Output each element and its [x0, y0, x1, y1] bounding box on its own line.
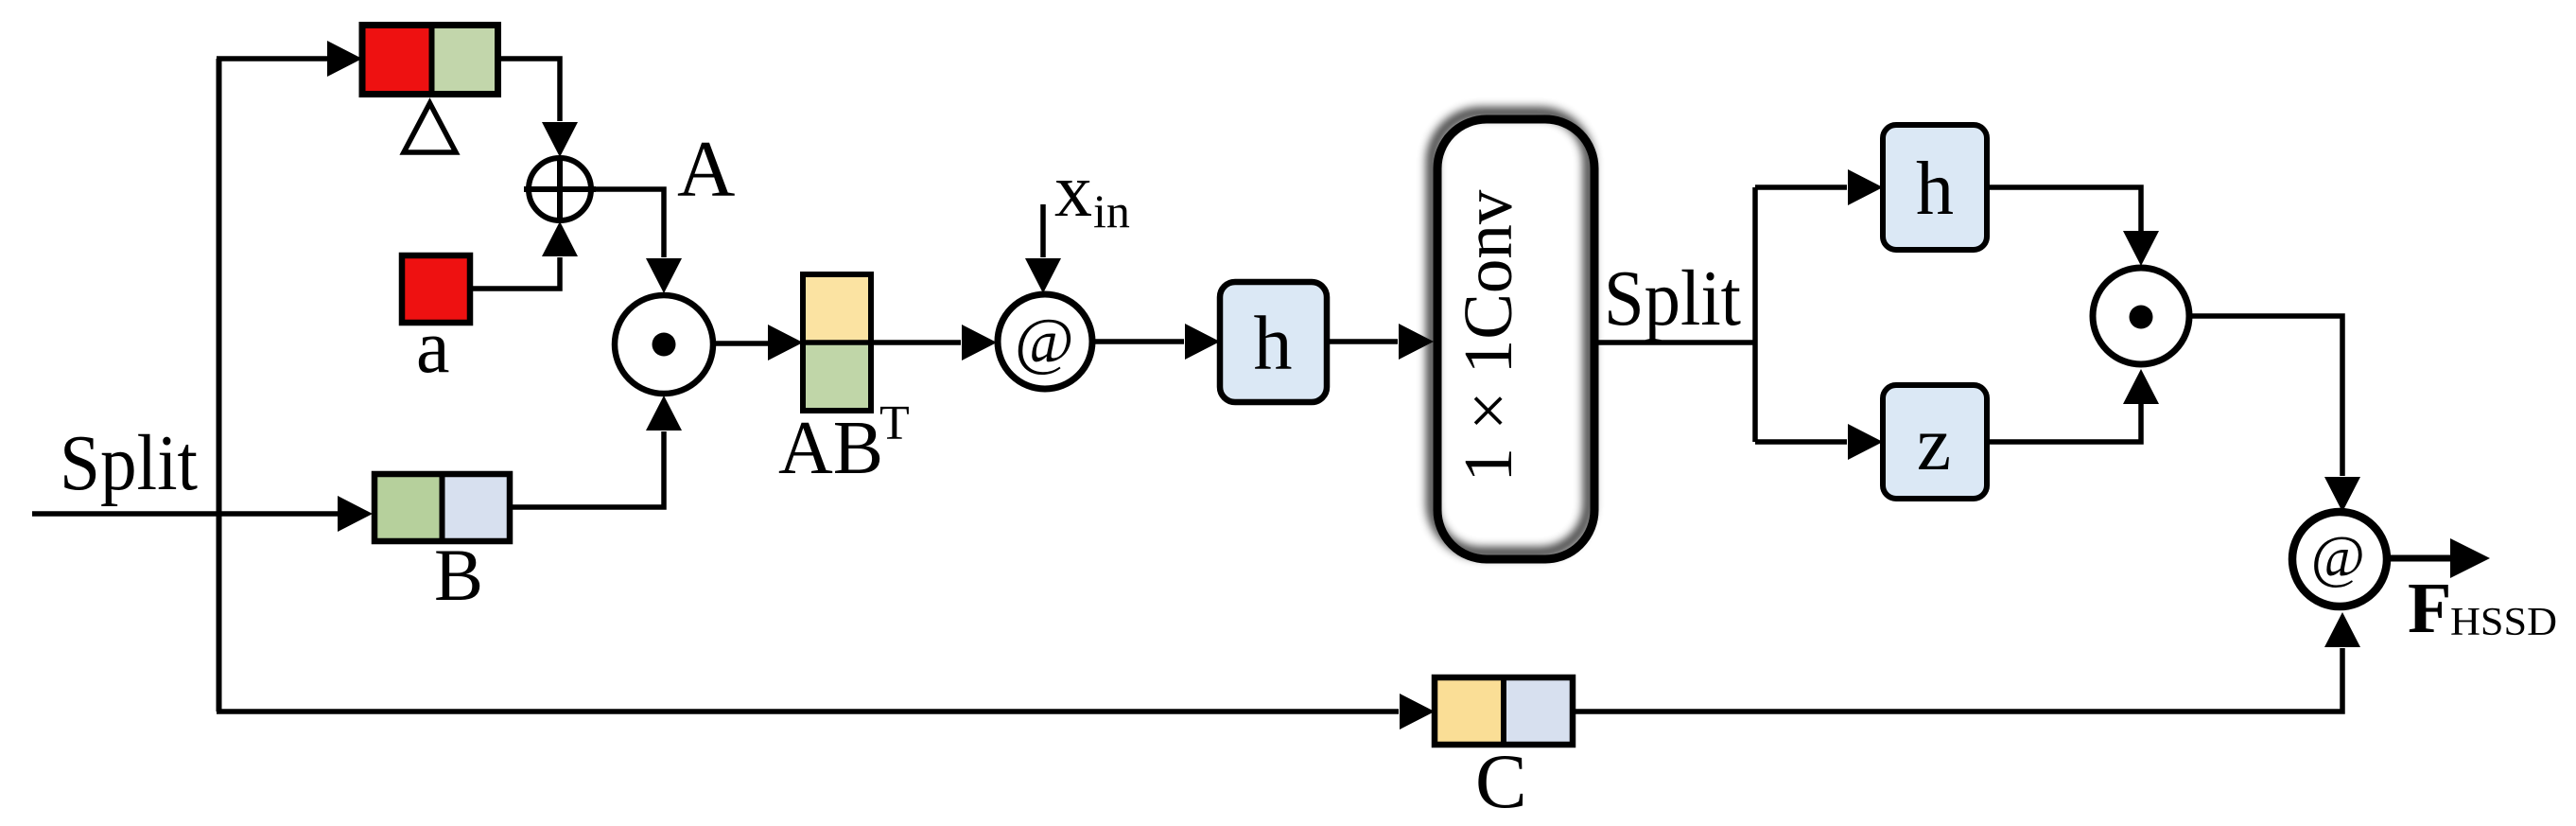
- svg-text:A: A: [677, 125, 735, 214]
- wire: B box to dot circle: [513, 431, 664, 507]
- wire: a box to plus circle: [470, 257, 560, 289]
- wire: h box to conv: [1327, 339, 1398, 344]
- svg-text:F: F: [2408, 569, 2451, 648]
- wire: top-left horizontal into delta box: [217, 56, 327, 62]
- wire: plus circle to dot circle (node A): [589, 189, 664, 257]
- wire: split trunk vertical left: [217, 59, 222, 712]
- svg-text:x: x: [1054, 149, 1092, 233]
- matrix C (yellow/blue two-cell box): [1435, 677, 1573, 745]
- svg-text:in: in: [1093, 185, 1130, 237]
- op plus circle: [524, 157, 596, 221]
- svg-text:h: h: [1254, 300, 1293, 386]
- svg-text:C: C: [1475, 738, 1527, 824]
- svg-text:Split: Split: [60, 419, 198, 507]
- op dot-product circle right: [2093, 268, 2189, 364]
- wire: C matrix to matmul output circle: [1573, 648, 2342, 712]
- matrix ABT (yellow/green vertical two-cell box): [803, 274, 871, 411]
- wire: output arrow: [2387, 555, 2451, 562]
- matrix delta (red/green two-cell box): [362, 26, 498, 95]
- block z: [1883, 385, 1987, 499]
- wire: z to dot circle right: [1987, 404, 2141, 442]
- matrix B (green/blue two-cell box): [374, 474, 510, 541]
- wire: split junction vertical: [1752, 187, 1758, 442]
- node x_in input: [1040, 204, 1046, 257]
- wire: dot circle right to matmul bottom: [2187, 316, 2342, 476]
- block h (middle): [1220, 282, 1327, 402]
- block 1x1 Conv: [1432, 113, 1594, 559]
- svg-text:1 × 1Conv: 1 × 1Conv: [1450, 189, 1526, 482]
- wire: split to z box: [1755, 439, 1847, 445]
- wire: dot circle to ABT matrix: [713, 341, 768, 346]
- wire: Split input horizontal into B box: [32, 511, 338, 517]
- op dot-product circle left: [615, 295, 713, 394]
- wire: conv to split junction: [1598, 340, 1757, 345]
- svg-text:@: @: [1015, 305, 1074, 377]
- wire: split to h box (right): [1755, 185, 1847, 190]
- svg-text:AB: AB: [778, 407, 883, 490]
- svg-text:z: z: [1917, 400, 1951, 486]
- triangle delta symbol: [404, 103, 456, 152]
- svg-text:T: T: [879, 396, 910, 450]
- wire: h right to dot circle right: [1987, 187, 2141, 231]
- wire: ABT to matmul circle: [871, 340, 961, 345]
- svg-text:a: a: [416, 306, 450, 389]
- svg-text:HSSD: HSSD: [2450, 601, 2557, 644]
- block h (right): [1883, 125, 1987, 250]
- matrix a (red box): [402, 255, 470, 323]
- wire: matmul to h box: [1092, 339, 1184, 344]
- svg-text:@: @: [2310, 525, 2364, 589]
- svg-text:h: h: [1916, 148, 1954, 231]
- svg-text:Split: Split: [1604, 255, 1741, 343]
- wire: bottom trunk to C matrix: [217, 709, 1399, 714]
- op matmul @ circle output: [2292, 512, 2387, 606]
- wire: delta box to plus circle: [501, 59, 560, 121]
- svg-text:B: B: [434, 534, 483, 616]
- op matmul @ circle: [998, 294, 1092, 389]
